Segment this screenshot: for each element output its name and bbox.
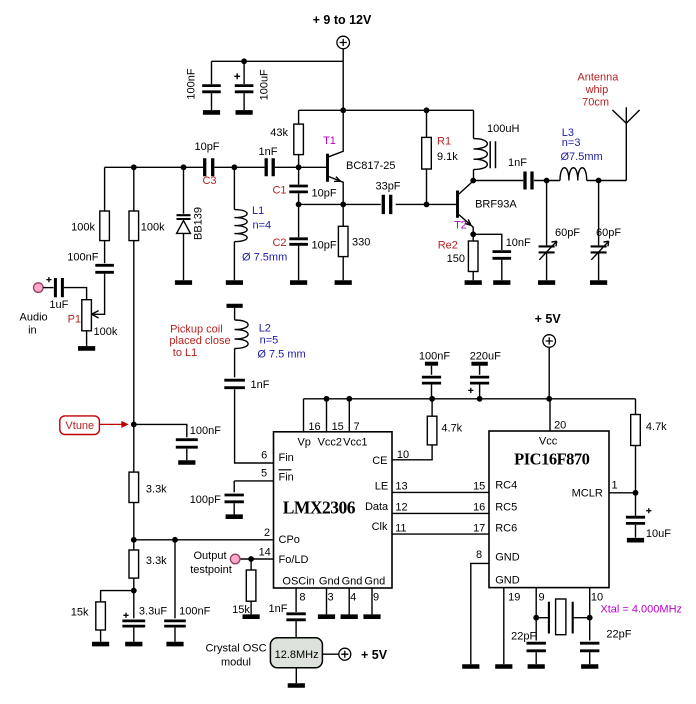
svg-text:10pF: 10pF: [312, 240, 337, 252]
capacitor 1nF pickup: [224, 380, 245, 388]
capacitor 100uF electrolytic: [241, 58, 247, 64]
svg-text:10: 10: [397, 449, 409, 461]
svg-text:whip: whip: [585, 84, 609, 96]
pin 5 Fin-bar: [234, 480, 273, 482]
resistor Re2 150: [472, 234, 474, 241]
wire Clk-RC6: [392, 533, 489, 535]
ground: [290, 280, 307, 285]
svg-text:1: 1: [611, 480, 617, 492]
capacitor 100nF 5V decoupling: [425, 362, 438, 366]
svg-text:100nF: 100nF: [67, 252, 98, 264]
capacitor C3 10pF: [205, 158, 213, 176]
svg-text:T2: T2: [454, 220, 467, 232]
svg-text:22pF: 22pF: [606, 629, 631, 641]
svg-text:20: 20: [554, 420, 566, 432]
svg-text:60pF: 60pF: [555, 227, 580, 239]
capacitor 3.3uF electrolytic: [133, 591, 135, 619]
svg-text:Vcc: Vcc: [539, 436, 558, 448]
svg-text:placed close: placed close: [169, 335, 230, 347]
oscillator module 12.8MHz: [270, 638, 322, 668]
ground: [335, 280, 352, 285]
pin 19 GND: [503, 588, 505, 664]
svg-text:RC6: RC6: [495, 522, 517, 534]
svg-text:7: 7: [353, 421, 359, 433]
node: [131, 588, 137, 594]
svg-text:3: 3: [327, 591, 333, 603]
svg-text:Re2: Re2: [438, 240, 458, 252]
svg-text:1nF: 1nF: [259, 146, 278, 158]
terminal bar L2: [227, 304, 243, 308]
pin 4 Gnd: [348, 588, 350, 614]
svg-text:Vtune: Vtune: [65, 420, 94, 432]
svg-text:15: 15: [473, 480, 485, 492]
svg-text:4.7k: 4.7k: [441, 422, 462, 434]
transistor T1 BC817-25: [326, 154, 329, 182]
svg-text:Ø 7.5 mm: Ø 7.5 mm: [257, 349, 305, 361]
svg-text:1uF: 1uF: [49, 299, 68, 311]
svg-text:9.1k: 9.1k: [437, 151, 458, 163]
pin 16 Vp: [303, 399, 305, 432]
wire rail to decoupling caps: [212, 60, 344, 62]
svg-text:Vcc2: Vcc2: [318, 437, 342, 449]
svg-text:1nF: 1nF: [508, 157, 527, 169]
svg-text:Fo/LD: Fo/LD: [279, 554, 309, 566]
svg-text:in: in: [28, 325, 37, 337]
ground: [78, 346, 95, 351]
ground: [175, 280, 192, 285]
wire emitter rail: [299, 203, 381, 205]
inductor L2 pickup n=5: [234, 308, 236, 320]
capacitor 100nF decoupling: [211, 61, 213, 84]
inductor 100uH RFC: [473, 110, 475, 138]
ground: [166, 642, 183, 647]
svg-text:100nF: 100nF: [419, 351, 450, 363]
wire: [275, 166, 326, 168]
resistor 4.7k MCLR pullup: [635, 399, 637, 415]
svg-text:n=4: n=4: [253, 220, 272, 232]
svg-text:10pF: 10pF: [194, 141, 219, 153]
svg-text:T1: T1: [323, 135, 336, 147]
svg-text:16: 16: [473, 502, 485, 514]
resistor 100k upper-left: [104, 167, 106, 211]
svg-text:RC4: RC4: [495, 479, 517, 491]
ground: [590, 280, 607, 285]
power terminal +5V: [543, 335, 556, 348]
wire output: [473, 180, 523, 182]
svg-text:Pickup coil: Pickup coil: [170, 324, 223, 336]
transistor T2 BRF93A: [456, 191, 459, 218]
ground: [236, 110, 253, 115]
capacitor 100pF: [233, 481, 235, 492]
svg-text:testpoint: testpoint: [190, 564, 232, 576]
svg-text:100pF: 100pF: [190, 494, 221, 506]
node: [248, 556, 254, 562]
crystal 4MHz: [533, 615, 539, 621]
ground: [226, 514, 243, 519]
capacitor 1nF coupling: [266, 158, 273, 176]
svg-text:Xtal = 4.000MHz: Xtal = 4.000MHz: [600, 604, 682, 616]
wire: [214, 166, 264, 168]
svg-text:Output: Output: [193, 550, 226, 562]
op-amp U2 PIC16F870 MCU: [489, 431, 609, 588]
svg-text:15k: 15k: [232, 604, 250, 616]
pin 15 Vcc2: [326, 399, 328, 432]
svg-text:2: 2: [264, 527, 270, 539]
svg-text:3.3k: 3.3k: [146, 555, 167, 567]
svg-text:Gnd: Gnd: [342, 576, 363, 588]
svg-text:17: 17: [473, 522, 485, 534]
svg-text:100nF: 100nF: [179, 606, 210, 618]
wire: [43, 287, 54, 289]
svg-text:to L1: to L1: [173, 347, 197, 359]
svg-text:GND: GND: [495, 551, 520, 563]
svg-text:L2: L2: [259, 323, 271, 335]
capacitor 10nF: [473, 234, 502, 250]
svg-text:16: 16: [308, 421, 320, 433]
svg-text:100k: 100k: [94, 326, 118, 338]
wire to Vtune node: [133, 241, 135, 425]
svg-text:BB139: BB139: [192, 207, 204, 240]
resistor 100k second: [133, 167, 135, 211]
svg-text:100nF: 100nF: [186, 68, 198, 99]
capacitor 1uF electrolytic: [55, 278, 62, 297]
svg-text:1nF: 1nF: [251, 379, 270, 391]
node output: [470, 178, 476, 184]
ground: [203, 110, 220, 115]
svg-text:19: 19: [508, 591, 520, 603]
svg-text:Antenna: Antenna: [577, 72, 619, 84]
resistor 3.3k upper: [133, 424, 135, 472]
ground: [288, 683, 305, 688]
connector audio in: [34, 283, 44, 293]
svg-text:modul: modul: [221, 657, 251, 669]
svg-text:CPo: CPo: [279, 534, 300, 546]
svg-text:PIC16F870: PIC16F870: [514, 450, 589, 469]
svg-text:C2: C2: [272, 237, 286, 249]
capacitor 100nF Vtune filter: [134, 424, 187, 437]
svg-text:Vp: Vp: [297, 437, 310, 449]
capacitor 100nF loop: [174, 540, 176, 619]
svg-text:RC5: RC5: [495, 502, 517, 514]
svg-text:1nF: 1nF: [269, 603, 288, 615]
svg-text:6: 6: [261, 450, 267, 462]
svg-text:15k: 15k: [71, 607, 89, 619]
svg-text:100nF: 100nF: [190, 425, 221, 437]
ground: [226, 280, 243, 285]
svg-text:8: 8: [476, 549, 482, 561]
pin 9 Gnd: [371, 588, 373, 614]
svg-text:10: 10: [591, 591, 603, 603]
wire to CPo: [133, 503, 135, 540]
svg-text:GND: GND: [495, 574, 520, 586]
capacitor C2 10pF: [298, 204, 300, 237]
wire collector rail: [299, 109, 474, 111]
svg-text:220uF: 220uF: [470, 351, 501, 363]
svg-text:3.3k: 3.3k: [146, 484, 167, 496]
wire CPo: [134, 539, 274, 541]
svg-text:5: 5: [261, 467, 267, 479]
svg-text:8: 8: [299, 591, 305, 603]
capacitor 100nF to pot wiper: [95, 265, 114, 272]
svg-text:+ 5V: + 5V: [535, 312, 562, 326]
svg-text:Ø7.5mm: Ø7.5mm: [561, 151, 603, 163]
svg-text:10uF: 10uF: [646, 528, 671, 540]
svg-text:60pF: 60pF: [596, 227, 621, 239]
pin 20 Vcc: [549, 399, 551, 431]
diode BB139 varicap: [183, 167, 185, 213]
svg-text:Clk: Clk: [372, 521, 388, 533]
ground: [627, 538, 644, 543]
resistor 43k: [298, 110, 300, 124]
svg-text:+ 5V: + 5V: [361, 648, 388, 662]
resistor 330: [342, 204, 344, 226]
svg-text:P1: P1: [68, 314, 81, 326]
wire LE-RC4: [392, 491, 489, 493]
wire: [587, 180, 627, 182]
resistor R1 9.1k: [426, 110, 428, 137]
node Vtune label: [60, 416, 100, 435]
potentiometer P1 100k: [82, 300, 92, 331]
svg-text:100uF: 100uF: [258, 69, 270, 100]
svg-text:330: 330: [352, 237, 370, 249]
resistor 15k testpoint: [250, 559, 252, 570]
svg-text:100uH: 100uH: [487, 123, 519, 135]
svg-text:Fin: Fin: [279, 452, 294, 464]
svg-text:9: 9: [539, 591, 545, 603]
svg-text:LMX2306: LMX2306: [283, 498, 356, 518]
ground: [528, 664, 545, 669]
capacitor 33pF: [383, 195, 390, 214]
svg-text:43k: 43k: [270, 127, 288, 139]
capacitor 1nF OSC: [286, 614, 305, 620]
wire base T2: [427, 203, 457, 205]
wire: [64, 288, 87, 300]
wire input rail: [105, 166, 203, 168]
svg-text:100k: 100k: [141, 222, 165, 234]
wire Data-RC5: [392, 512, 489, 514]
pin 14 Fo/LD: [240, 558, 274, 560]
svg-text:3.3uF: 3.3uF: [139, 606, 167, 618]
svg-text:Fin: Fin: [279, 472, 294, 484]
pin 9 OSC1: [535, 588, 537, 618]
svg-text:13: 13: [395, 480, 407, 492]
svg-text:12.8MHz: 12.8MHz: [275, 649, 319, 661]
capacitor C1 10pF: [298, 167, 300, 184]
antenna whip: [625, 107, 627, 180]
wire +5V rail: [304, 398, 636, 400]
ground: [493, 280, 510, 285]
svg-text:4.7k: 4.7k: [646, 421, 667, 433]
pin 1 MCLR: [609, 492, 636, 494]
pin 10 CE + resistor 4.7k: [392, 445, 432, 460]
svg-text:BC817-25: BC817-25: [346, 160, 396, 172]
svg-text:22pF: 22pF: [511, 631, 536, 643]
ground: [178, 460, 195, 465]
svg-text:70cm: 70cm: [582, 96, 609, 108]
svg-text:10nF: 10nF: [506, 237, 531, 249]
svg-text:Audio: Audio: [20, 312, 48, 324]
svg-text:9: 9: [373, 591, 379, 603]
wire: [295, 668, 297, 683]
op-amp U1 LMX2306 PLL: [274, 432, 393, 588]
capacitor 1nF output: [525, 172, 532, 190]
wire: [322, 653, 338, 655]
ground: [462, 664, 479, 669]
inductor L1 n=4: [233, 167, 235, 209]
pin 7 Vcc1: [348, 399, 350, 432]
svg-text:Gnd: Gnd: [364, 576, 385, 588]
capacitor 22pF left: [535, 618, 537, 641]
node base T1: [296, 164, 302, 170]
svg-text:150: 150: [447, 253, 465, 265]
svg-text:4: 4: [350, 591, 356, 603]
ground: [581, 664, 598, 669]
wire: [548, 347, 550, 399]
power terminal +5V module: [339, 648, 351, 660]
node T2 emitter: [470, 231, 476, 237]
svg-text:14: 14: [259, 547, 271, 559]
svg-text:Ø 7.5mm: Ø 7.5mm: [242, 252, 287, 264]
svg-text:10pF: 10pF: [312, 188, 337, 200]
pin 10 OSC2: [589, 588, 591, 618]
svg-text:Gnd: Gnd: [319, 576, 340, 588]
pin 8 GND: [471, 563, 489, 664]
svg-text:LE: LE: [375, 481, 388, 493]
wire: [342, 49, 344, 62]
capacitor 220uF electrolytic: [471, 362, 487, 366]
svg-text:OSCin: OSCin: [282, 576, 314, 588]
svg-text:Crystal OSC: Crystal OSC: [205, 643, 266, 655]
svg-text:+ 9 to 12V: + 9 to 12V: [313, 13, 372, 27]
svg-text:12: 12: [395, 502, 407, 514]
svg-text:n=3: n=3: [562, 137, 581, 149]
wire supply drop: [342, 61, 344, 110]
capacitor 22pF right: [589, 618, 591, 641]
power terminal +9-12V: [337, 36, 350, 49]
resistor 3.3k lower: [133, 540, 135, 550]
ground: [125, 642, 142, 647]
pin 8 OSCin: [295, 588, 297, 612]
capacitor 60pF trimmer 2: [598, 181, 600, 246]
ground: [465, 280, 482, 285]
ground: [92, 642, 109, 647]
svg-text:L1: L1: [252, 205, 264, 217]
svg-text:Data: Data: [365, 501, 389, 513]
inductor L3 n=3: [560, 168, 587, 181]
capacitor 60pF trimmer 1: [546, 181, 548, 246]
svg-text:C3: C3: [202, 175, 216, 187]
wire to wiper: [93, 274, 104, 315]
resistor 15k left: [101, 591, 134, 602]
connector output testpoint: [230, 554, 240, 564]
svg-text:CE: CE: [372, 455, 387, 467]
svg-text:BRF93A: BRF93A: [475, 199, 517, 211]
ground: [495, 664, 512, 669]
svg-text:15: 15: [332, 421, 344, 433]
node Vtune junction: [131, 422, 137, 428]
svg-text:11: 11: [395, 522, 406, 534]
svg-text:33pF: 33pF: [375, 181, 400, 193]
svg-text:Vcc1: Vcc1: [343, 437, 367, 449]
ground: [243, 614, 260, 619]
svg-text:100k: 100k: [71, 222, 95, 234]
svg-text:C1: C1: [272, 185, 286, 197]
svg-text:MCLR: MCLR: [572, 488, 603, 500]
svg-text:n=5: n=5: [260, 334, 279, 346]
ground: [538, 280, 555, 285]
wire: [534, 180, 560, 182]
capacitor 10uF electrolytic: [635, 493, 637, 516]
wire: [396, 203, 427, 205]
pin 3 Gnd: [326, 588, 328, 614]
svg-text:R1: R1: [437, 136, 451, 148]
